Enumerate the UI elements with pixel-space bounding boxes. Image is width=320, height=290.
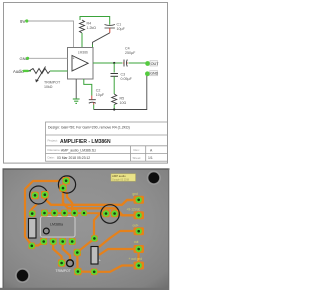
svg-text:OUT: OUT (151, 62, 160, 66)
copper trace pad-row thread (45, 213, 136, 215)
pad R2.1 (29, 210, 36, 217)
wire Audio to trimpot (28, 70, 31, 72)
copper trace R3 to out pad (99, 231, 134, 247)
IC pin1 marker (43, 228, 49, 234)
capacitor C3 (111, 74, 119, 77)
pad R2.2 (29, 243, 36, 250)
trimpot R1 (29, 69, 50, 74)
mounting hole top-right (147, 171, 160, 184)
junction output node (113, 62, 115, 64)
svg-text:Rev:: Rev: (134, 148, 140, 152)
wire C3 to R5 (113, 76, 115, 94)
node 9V label (20, 19, 28, 24)
sheet frame (4, 3, 168, 164)
svg-text:LM386a: LM386a (50, 222, 63, 226)
svg-text:Google 03 2018: Google 03 2018 (112, 178, 130, 181)
wire R4 to pin1 (81, 33, 83, 48)
header pad gnd (134, 196, 145, 204)
pad R3.2 (91, 269, 98, 276)
header pad out gnd (134, 262, 145, 270)
wire zobel drop (113, 63, 115, 73)
capacitor C2 (89, 100, 96, 104)
copper trace R2 bottom to IC (32, 242, 45, 246)
IC pads top row (41, 210, 87, 217)
wire pin4 to ground (75, 79, 77, 99)
pad C6.1 (62, 177, 69, 184)
trimpot wiper arrow (37, 67, 46, 82)
capacitor C4 (124, 60, 127, 67)
node GND2 label (145, 71, 159, 77)
pad C7.1 (102, 210, 109, 217)
svg-text:10µF: 10µF (96, 93, 105, 97)
copper trace cap C7 link (94, 214, 106, 236)
copper trace to trimpot wiper (63, 243, 70, 261)
svg-text:1/1: 1/1 (148, 156, 153, 160)
svg-text:Sheet:: Sheet: (133, 156, 142, 160)
wire R5 to ground rail (113, 105, 115, 110)
header pad +9-12Vdc (134, 211, 145, 219)
capacitor C5 silkscreen ring (30, 186, 48, 204)
copper trace IC pin8 up (67, 192, 72, 211)
mounting hole bottom-left (16, 269, 30, 283)
svg-text:Date:: Date: (48, 156, 55, 160)
svg-text:10Ω: 10Ω (120, 101, 127, 105)
svg-text:1.2kΩ: 1.2kΩ (87, 26, 97, 30)
copper trace trimpot bottom run (95, 266, 133, 272)
svg-text:03 Mar 2018 05:23:12: 03 Mar 2018 05:23:12 (57, 156, 90, 160)
node GND label (left) (20, 56, 30, 61)
pcb canvas (4, 169, 169, 290)
svg-text:+ out gnd: + out gnd (129, 257, 143, 261)
pad R3.1 (91, 235, 98, 242)
svg-text:LM386: LM386 (78, 50, 88, 54)
wire GND to pin2 (29, 57, 68, 59)
wire pin7 to C2 (84, 79, 92, 96)
copper trace out pad row link (99, 249, 134, 255)
wire gain bracket (pins 1-8 via R4,C1) (80, 17, 110, 25)
IC pads bottom row (40, 238, 75, 245)
svg-text:out: out (134, 240, 139, 244)
svg-text:gnd: gnd (133, 192, 139, 196)
svg-text:9V: 9V (20, 19, 25, 24)
copper trace trimpot link (77, 253, 92, 272)
copper trace 9V bus (63, 188, 135, 215)
wire trimpot to pin3 (50, 70, 68, 72)
svg-text:+9-12Vdc: +9-12Vdc (127, 208, 141, 212)
pad C5.1 (31, 192, 39, 200)
resistor R2 footprint body (29, 219, 37, 239)
header pad out+ (134, 227, 145, 235)
capacitor C1 (105, 24, 115, 28)
wire C4 to OUT (129, 62, 147, 64)
wire pin8 stub (92, 45, 94, 48)
header pad out (134, 245, 145, 253)
copper trace IC pin to trimpot (53, 243, 61, 263)
wire output pin5 (93, 62, 123, 64)
trimpot footprint (56, 249, 82, 275)
trimpot hole ring (67, 260, 74, 267)
copper trace gnd bus (45, 195, 135, 205)
svg-text:AMP_audio_LM386.fzz: AMP_audio_LM386.fzz (61, 148, 96, 152)
svg-text:+: + (99, 259, 101, 263)
wire C1 to pin8 (diagonal) (93, 33, 110, 45)
svg-text:AMPLIFIER - LM386N: AMPLIFIER - LM386N (60, 139, 111, 145)
svg-text:out+: out+ (133, 223, 139, 227)
node Audio label (13, 69, 29, 74)
note sticky (111, 174, 136, 181)
wire C2 to ground rail (93, 105, 95, 110)
pad RV1.1 (58, 259, 65, 266)
svg-text:Filename:: Filename: (48, 148, 61, 152)
pin tips C2 (92, 96, 94, 105)
capacitor C7 silkscreen ring (101, 205, 120, 224)
node OUT label (145, 61, 159, 66)
resistor R3 footprint body (91, 247, 98, 265)
svg-text:0.05µF: 0.05µF (121, 77, 133, 81)
pad C7.2 (111, 210, 118, 217)
pin tips C4 (123, 62, 128, 64)
copper trace cap C5 to R2 (32, 204, 38, 214)
pin tip C1 (109, 28, 111, 33)
svg-text:10µF: 10µF (117, 27, 126, 31)
ground (73, 99, 80, 103)
svg-text:10kΩ: 10kΩ (44, 85, 53, 89)
copper trace out gnd vertical (137, 249, 139, 266)
op-amp U1 LM386 (68, 48, 94, 80)
resistor R4 (80, 20, 85, 33)
junction ground rail (113, 108, 115, 110)
wire ground rail (94, 76, 147, 110)
pad RV1.3 (74, 268, 81, 275)
svg-text:Design: Gain=50; For Gain=200,: Design: Gain=50; For Gain=200, remove R4… (48, 126, 130, 130)
copper trace trimpot to R3 (79, 239, 95, 251)
svg-text:TRIMPOT: TRIMPOT (56, 269, 71, 273)
IC U1 footprint body (41, 217, 76, 238)
pad RV1.2 (74, 249, 81, 256)
pad C6.2 (59, 184, 66, 191)
capacitor C6 silkscreen ring (58, 176, 75, 193)
pad C5.2 (41, 191, 49, 199)
svg-text:+: + (73, 56, 75, 60)
svg-text:GND: GND (150, 72, 158, 76)
wire 9V to pin6 (28, 21, 74, 48)
svg-text:250µF: 250µF (125, 51, 136, 55)
copper trace top-left loop (25, 181, 60, 245)
resistor R5 (112, 94, 117, 105)
svg-text:Project:: Project: (48, 139, 58, 143)
